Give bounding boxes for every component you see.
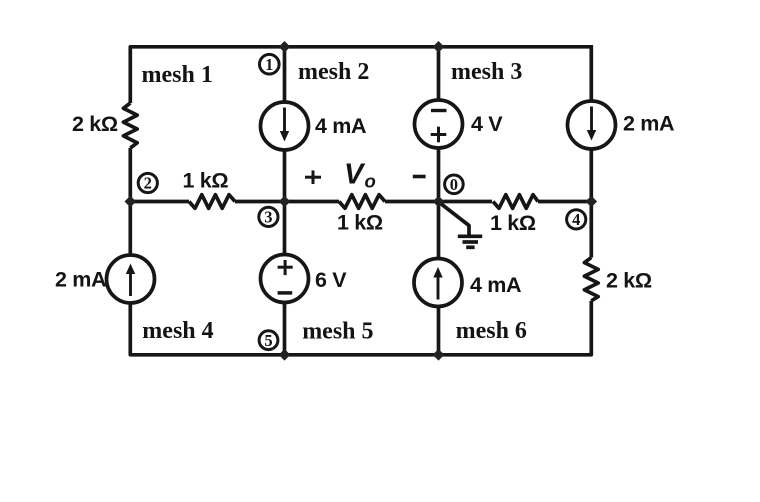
svg-text:mesh 2: mesh 2 [298, 59, 369, 85]
svg-text:mesh 6: mesh 6 [456, 318, 527, 344]
junction top-A [279, 41, 291, 53]
svg-text:mesh 3: mesh 3 [451, 59, 522, 85]
svg-text:4: 4 [572, 210, 580, 229]
current source I2 2 mA (down) [568, 101, 616, 149]
svg-text:V: V [344, 159, 366, 191]
current source I3 2 mA (up) [107, 255, 155, 303]
junction bottom-A [279, 349, 291, 361]
wire mid-A vertical [283, 47, 287, 355]
current source I1 4 mA (down) [261, 102, 309, 150]
svg-text:2 mA: 2 mA [623, 112, 674, 136]
svg-text:3: 3 [264, 208, 272, 227]
svg-text:0: 0 [450, 175, 458, 194]
junction mid-A [279, 196, 291, 208]
svg-text:mesh 1: mesh 1 [142, 62, 213, 88]
svg-text:mesh 4: mesh 4 [142, 318, 213, 344]
resistor R3 1 kΩ (Vo) [339, 195, 385, 209]
svg-text:2 mA: 2 mA [55, 268, 106, 292]
svg-text:mesh 5: mesh 5 [302, 319, 373, 345]
svg-text:1 kΩ: 1 kΩ [337, 211, 383, 235]
svg-text:4 V: 4 V [471, 112, 503, 136]
node 4 [567, 210, 586, 229]
resistor R2 1 kΩ [189, 195, 235, 209]
svg-text:1 kΩ: 1 kΩ [490, 211, 536, 235]
node 3 [259, 207, 278, 226]
svg-text:5: 5 [264, 331, 272, 350]
wire right upper [589, 45, 593, 258]
wire mid-B vertical [437, 47, 441, 355]
svg-text:4 mA: 4 mA [470, 273, 521, 297]
wire middle row seg2 [235, 200, 339, 204]
wire middle row seg1 [130, 200, 189, 204]
label Vo minus [413, 175, 426, 179]
svg-text:1 kΩ: 1 kΩ [183, 169, 229, 193]
resistor R1 2 kΩ left [123, 103, 137, 148]
svg-text:2 kΩ: 2 kΩ [72, 112, 118, 136]
node 5 [259, 331, 278, 350]
svg-text:1: 1 [265, 55, 273, 74]
voltage source V2 6 V [261, 255, 309, 303]
junction mid-right [586, 196, 598, 208]
ground stem [440, 203, 469, 235]
svg-text:6 V: 6 V [315, 268, 347, 292]
current source I4 4 mA (up) [414, 259, 462, 307]
node 2 [138, 173, 157, 192]
wire bottom [130, 148, 591, 355]
junction mid-B [433, 196, 445, 208]
svg-text:o: o [365, 171, 376, 192]
voltage source V1 4 V [415, 100, 463, 148]
label Vo plus [305, 170, 321, 184]
wire middle row seg4 [538, 200, 591, 204]
junction top-B [433, 41, 445, 53]
resistor R5 2 kΩ right [584, 258, 598, 301]
svg-text:2: 2 [144, 174, 152, 193]
svg-text:4 mA: 4 mA [315, 114, 366, 138]
junction mid-left [125, 196, 137, 208]
ground bars [458, 234, 482, 238]
wire top [130, 47, 591, 103]
junction bottom-B [433, 349, 445, 361]
node 1 [260, 54, 280, 74]
resistor R4 1 kΩ [493, 195, 538, 209]
wire middle row seg3 [385, 200, 492, 204]
svg-text:2 kΩ: 2 kΩ [606, 269, 652, 293]
node 0 [445, 175, 464, 194]
